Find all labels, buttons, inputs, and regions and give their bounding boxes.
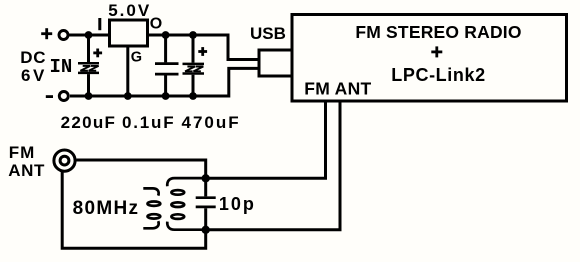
svg-text:USB: USB	[250, 24, 286, 43]
svg-text:LPC-Link2: LPC-Link2	[391, 65, 485, 85]
svg-text:10p: 10p	[219, 194, 256, 214]
svg-text:FM STEREO RADIO: FM STEREO RADIO	[355, 22, 521, 42]
svg-text:5.0V: 5.0V	[108, 1, 151, 20]
svg-text:IN: IN	[50, 56, 73, 78]
svg-text:470uF: 470uF	[182, 113, 241, 132]
svg-text:80MHz: 80MHz	[73, 198, 140, 219]
svg-text:0.1uF: 0.1uF	[122, 113, 175, 132]
svg-text:6V: 6V	[21, 66, 47, 85]
svg-text:G: G	[131, 50, 142, 66]
svg-text:220uF: 220uF	[61, 113, 117, 132]
svg-text:ANT: ANT	[8, 161, 45, 180]
svg-text:O: O	[150, 15, 162, 32]
svg-text:FM ANT: FM ANT	[304, 79, 371, 99]
svg-text:DC: DC	[20, 48, 46, 67]
svg-text:FM: FM	[9, 143, 36, 162]
